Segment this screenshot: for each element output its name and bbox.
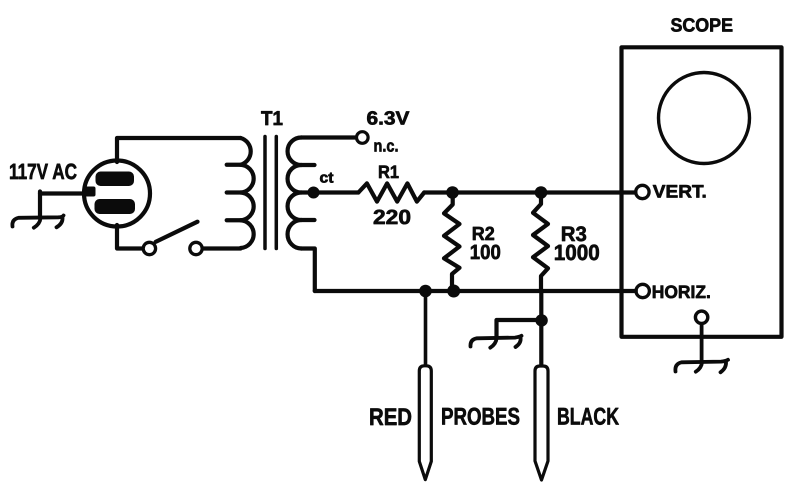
scope box <box>622 47 782 337</box>
svg-text:100: 100 <box>470 241 501 264</box>
n.c. terminal <box>357 132 369 144</box>
ground (probe) <box>470 336 521 348</box>
wire AC input to plug <box>40 191 88 195</box>
wire T1 secondary top to n.c. terminal <box>301 135 355 139</box>
svg-text:117V AC: 117V AC <box>9 159 77 184</box>
resistor R3 <box>533 193 548 292</box>
probe BLACK <box>535 366 548 480</box>
node junction red probe <box>419 285 432 298</box>
svg-text:SCOPE: SCOPE <box>671 16 734 37</box>
wire T1 secondary bottom to rail <box>301 249 315 292</box>
svg-text:6.3V: 6.3V <box>367 109 410 130</box>
svg-text:T1: T1 <box>261 108 283 130</box>
svg-text:RED: RED <box>369 404 412 431</box>
wire plug top to T1 primary <box>117 138 241 162</box>
resistor R2 <box>444 193 460 292</box>
svg-text:ct: ct <box>320 170 334 187</box>
svg-text:n.c.: n.c. <box>374 137 399 156</box>
wire junction to probe ground <box>497 320 542 336</box>
svg-text:PROBES: PROBES <box>441 404 520 431</box>
svg-text:R1: R1 <box>378 162 399 182</box>
wire R3 bottom to black probe <box>539 291 543 366</box>
wire rail to RED probe <box>424 291 428 366</box>
terminal VERT <box>636 185 649 198</box>
svg-text:VERT.: VERT. <box>653 182 707 202</box>
svg-text:BLACK: BLACK <box>557 404 619 431</box>
svg-text:HORIZ.: HORIZ. <box>652 282 711 302</box>
ground (AC line) <box>12 216 63 228</box>
svg-text:1000: 1000 <box>554 240 600 265</box>
node junction R3 top <box>535 186 548 199</box>
node black probe ground junction <box>535 314 547 326</box>
terminal scope ground <box>695 311 707 323</box>
terminal HORIZ <box>636 284 649 297</box>
node junction R2 top <box>446 186 459 199</box>
ground (scope) <box>675 360 728 373</box>
wire bottom rail to HORIZ terminal <box>315 289 636 293</box>
node junction R2 bottom <box>447 285 460 298</box>
transformer T1 secondary winding <box>288 138 315 249</box>
transformer T1 primary winding <box>227 138 254 248</box>
node ct <box>308 187 320 199</box>
wire R1 to VERT terminal <box>424 190 635 194</box>
wire plug bottom to switch <box>117 225 142 249</box>
wire AC input down to ground <box>38 192 42 217</box>
AC plug P1 <box>84 161 150 227</box>
resistor R1 <box>358 183 424 201</box>
switch S1 <box>143 222 202 255</box>
wire scope ground terminal to ground <box>700 324 704 361</box>
CRT screen <box>659 73 750 164</box>
probe RED <box>419 366 431 480</box>
svg-text:220: 220 <box>373 206 411 229</box>
wire ct to R1 <box>301 190 358 194</box>
wire switch to T1 primary bottom <box>204 246 241 250</box>
transformer T1 core <box>265 137 276 249</box>
